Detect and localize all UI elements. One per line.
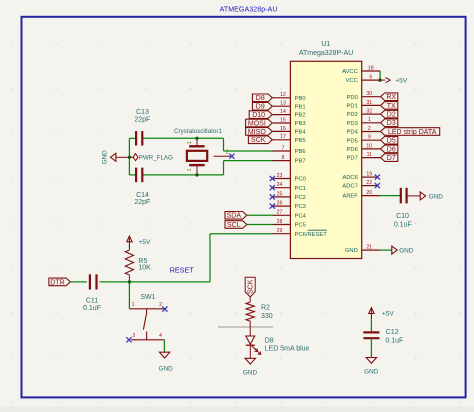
global label D6: [381, 145, 398, 153]
svg-text:SCK: SCK: [251, 137, 266, 144]
pin 32 PD2: [347, 109, 381, 119]
pin 28 PC5: [273, 219, 306, 229]
pin 9 PD5: [347, 135, 381, 145]
svg-text:D3: D3: [387, 120, 396, 127]
wire reset node up to pin 29: [210, 234, 273, 282]
svg-text:PB3: PB3: [295, 121, 306, 127]
wire ground rail left: [128, 138, 130, 175]
svg-text:+5V: +5V: [138, 239, 151, 246]
svg-text:16: 16: [280, 126, 286, 132]
global label D10: [249, 111, 272, 119]
svg-text:1: 1: [187, 141, 193, 144]
svg-text:MISO: MISO: [248, 129, 266, 136]
capacitor C13: [134, 109, 150, 145]
pin 2 PD4: [347, 126, 381, 136]
wire +5V to C12: [370, 320, 372, 333]
pin 21 GND: [345, 245, 380, 255]
svg-text:D8: D8: [256, 95, 265, 102]
svg-text:PD1: PD1: [347, 104, 358, 110]
pin 18 AVCC: [342, 65, 380, 75]
svg-text:1: 1: [187, 169, 193, 172]
svg-text:PB0: PB0: [295, 96, 306, 102]
pin 13 PB1: [273, 101, 306, 111]
pin 31 PD1: [347, 100, 381, 110]
wire C11 to reset node: [100, 281, 211, 283]
wire DTR to C11: [70, 281, 87, 283]
no-connect X: [375, 175, 380, 180]
wire XTAL top rail: [129, 138, 272, 151]
pin 7 PB6: [273, 145, 306, 155]
ground GND (left of rail): [101, 150, 129, 165]
svg-text:LED 5mA blue: LED 5mA blue: [265, 345, 310, 352]
pin 27 PC4: [273, 210, 307, 220]
junction crystal bottom: [195, 173, 198, 176]
svg-text:C14: C14: [136, 192, 149, 199]
svg-text:ATmega328P-AU: ATmega328P-AU: [299, 50, 353, 57]
svg-text:+5V: +5V: [395, 77, 408, 84]
global label SCK: [248, 136, 272, 144]
svg-text:ADC6: ADC6: [342, 175, 357, 181]
capacitor C12: [363, 329, 403, 344]
svg-text:GND: GND: [364, 368, 379, 375]
svg-text:C10: C10: [396, 213, 409, 220]
pin 29 PC6/RESET: [273, 228, 328, 238]
svg-text:GND: GND: [429, 194, 444, 201]
svg-text:12: 12: [280, 92, 286, 98]
power flag PWR_FLAG: [129, 154, 173, 162]
pin 24 PC1: [273, 182, 306, 192]
svg-text:D8: D8: [265, 337, 274, 344]
power +5V (right of VCC): [380, 77, 408, 84]
svg-text:21: 21: [366, 245, 372, 251]
svg-text:24: 24: [277, 182, 283, 188]
svg-text:PWR_FLAG: PWR_FLAG: [139, 155, 173, 162]
svg-text:PD0: PD0: [347, 95, 358, 101]
svg-text:PD7: PD7: [347, 156, 358, 162]
pin 22 ADC7: [342, 180, 377, 190]
pin 25 PC2: [273, 191, 306, 201]
svg-text:D2: D2: [387, 112, 396, 119]
capacitor C11: [83, 274, 101, 312]
ground GND (below LED): [243, 358, 258, 376]
global label MOSI: [246, 119, 273, 127]
svg-text:PB7: PB7: [295, 159, 306, 165]
pin 11 PD7: [347, 152, 381, 162]
svg-text:22pF: 22pF: [134, 116, 150, 123]
svg-text:PC2: PC2: [295, 195, 306, 201]
ground GND (below SW1): [159, 352, 174, 372]
svg-text:11: 11: [367, 152, 372, 158]
global label DTR: [49, 278, 70, 286]
svg-text:TX: TX: [387, 103, 396, 110]
svg-text:PD5: PD5: [347, 138, 358, 144]
svg-text:RX: RX: [386, 94, 396, 101]
ground GND (right of U1): [392, 246, 414, 255]
svg-text:ATMEGA328p-AU: ATMEGA328p-AU: [220, 7, 278, 14]
svg-text:GND: GND: [345, 248, 358, 254]
wire AVCC to VCC junction: [379, 71, 381, 80]
no-connect X: [270, 185, 275, 190]
svg-text:PD3: PD3: [347, 121, 358, 127]
svg-text:0.1uF: 0.1uF: [394, 221, 412, 228]
pin 10 PD6: [347, 143, 381, 153]
svg-text:D7: D7: [387, 155, 396, 162]
junction VCC node: [378, 78, 381, 81]
wire SW1 pin 4 to ground: [163, 340, 165, 352]
switch SW1: [129, 294, 164, 340]
svg-text:20: 20: [366, 190, 372, 196]
svg-text:25: 25: [277, 191, 283, 197]
svg-text:PB2: PB2: [295, 113, 306, 119]
pin 16 PB4: [273, 126, 307, 136]
wire GND pin to ground: [380, 249, 392, 251]
pin 17 PB5: [273, 134, 306, 144]
svg-text:PB4: PB4: [295, 130, 307, 136]
global label D5: [381, 136, 398, 144]
svg-text:D6: D6: [387, 146, 396, 153]
global label RX: [381, 93, 398, 101]
svg-text:SW1: SW1: [140, 294, 155, 301]
svg-text:PD6: PD6: [347, 147, 358, 153]
svg-text:AVCC: AVCC: [342, 69, 358, 75]
pin 6 VCC: [346, 75, 381, 85]
svg-text:13: 13: [280, 101, 286, 107]
svg-text:ADC7: ADC7: [342, 184, 357, 190]
global label TX: [381, 102, 398, 110]
svg-text:4: 4: [159, 333, 162, 339]
svg-text:2: 2: [159, 302, 162, 308]
wire reset node to SW1: [128, 282, 130, 309]
svg-text:PD4: PD4: [347, 130, 359, 136]
pin 8 PB7: [273, 155, 306, 165]
svg-text:PC4: PC4: [295, 213, 307, 219]
svg-text:R2: R2: [261, 304, 270, 311]
capacitor C14: [134, 168, 150, 207]
wire SCL to pin: [247, 224, 273, 226]
svg-text:D9: D9: [256, 104, 265, 111]
pin 1 PD3: [347, 117, 381, 127]
global label SCK (vertical): [245, 277, 255, 297]
svg-text:+5V: +5V: [382, 311, 395, 318]
pin 30 PD0: [347, 91, 381, 101]
svg-text:18: 18: [368, 65, 374, 71]
svg-text:PB6: PB6: [295, 149, 306, 155]
svg-text:DTR: DTR: [50, 279, 64, 286]
svg-text:PC1: PC1: [295, 186, 306, 192]
junction crystal top: [195, 137, 198, 140]
svg-text:VCC: VCC: [346, 78, 358, 84]
svg-text:SDA: SDA: [227, 213, 242, 220]
svg-text:1: 1: [132, 302, 135, 308]
svg-text:C12: C12: [386, 329, 399, 336]
svg-text:31: 31: [366, 100, 372, 106]
pin 12 PB0: [273, 92, 306, 102]
pin 19 ADC6: [342, 172, 377, 182]
LED D8: [246, 336, 310, 358]
svg-text:GND: GND: [243, 369, 258, 376]
wire AREF to C10: [380, 195, 401, 197]
svg-text:PC5: PC5: [295, 223, 306, 229]
svg-text:9: 9: [368, 135, 371, 141]
global label D9: [252, 102, 272, 110]
svg-text:U1: U1: [321, 41, 330, 48]
svg-text:0.1uF: 0.1uF: [385, 337, 403, 344]
pin 20 AREF: [342, 190, 380, 200]
no-connect X SW1 pin 3: [126, 337, 131, 342]
global label D8: [252, 94, 272, 102]
resistor R2: [246, 297, 273, 336]
gray separator line: [218, 326, 273, 328]
power +5V (above C12): [369, 308, 395, 320]
svg-text:3: 3: [132, 333, 135, 339]
no-connect X: [270, 194, 275, 199]
global label SCL: [225, 221, 247, 229]
svg-text:15: 15: [280, 117, 286, 123]
svg-text:GND: GND: [159, 365, 174, 372]
svg-text:14: 14: [280, 109, 286, 115]
no-connect X: [270, 176, 275, 181]
svg-text:2: 2: [368, 126, 371, 132]
svg-text:PC6/RESET: PC6/RESET: [295, 232, 328, 238]
no-connect X: [270, 204, 275, 209]
svg-text:28: 28: [277, 219, 283, 225]
global label D7: [381, 154, 398, 162]
svg-text:SCL: SCL: [227, 222, 241, 229]
pin 23 PC0: [273, 173, 306, 183]
global label MISO: [246, 128, 273, 136]
pin 14 PB2: [273, 109, 306, 119]
no-connect X: [375, 183, 380, 188]
junction reset node: [128, 280, 131, 283]
svg-text:6: 6: [369, 75, 372, 81]
svg-text:2: 2: [225, 149, 228, 155]
pin 26 PC3: [273, 201, 306, 211]
IC U1 ATmega328P-AU body: [290, 61, 361, 258]
svg-text:GND: GND: [399, 248, 414, 255]
svg-text:D5: D5: [387, 138, 396, 145]
wire SDA to pin: [247, 214, 273, 216]
wire C12 to ground: [370, 338, 372, 357]
svg-text:PC0: PC0: [295, 177, 306, 183]
no-connect X crystal pin 2: [229, 154, 234, 159]
svg-text:C13: C13: [136, 109, 149, 116]
svg-text:7: 7: [282, 145, 285, 151]
svg-text:D10: D10: [252, 112, 265, 119]
svg-text:GND: GND: [101, 150, 108, 165]
svg-text:10: 10: [366, 143, 372, 149]
svg-text:10K: 10K: [138, 265, 151, 272]
capacitor C10: [394, 188, 412, 229]
svg-text:29: 29: [277, 228, 283, 234]
global label SDA: [225, 212, 247, 220]
svg-text:8: 8: [282, 155, 285, 161]
svg-text:LED strip DATA: LED strip DATA: [388, 129, 437, 136]
svg-text:27: 27: [277, 210, 283, 216]
no-connect X SW1 pin 2: [162, 307, 167, 312]
power +5V (above R5): [127, 236, 151, 248]
svg-text:SCK: SCK: [248, 279, 255, 294]
svg-text:330: 330: [261, 313, 273, 320]
pin 15 PB3: [273, 117, 306, 127]
svg-text:32: 32: [366, 109, 372, 115]
wire XTAL bottom rail: [129, 161, 272, 175]
svg-text:Crystaloscillator1: Crystaloscillator1: [174, 128, 222, 135]
ground GND (below C12): [364, 358, 379, 376]
svg-text:30: 30: [366, 91, 372, 97]
svg-text:1: 1: [368, 117, 371, 123]
svg-text:PB5: PB5: [295, 138, 306, 144]
junction ground tap: [128, 156, 131, 159]
resistor R5: [125, 248, 151, 282]
global label D2: [381, 110, 398, 118]
svg-text:PB1: PB1: [295, 104, 306, 110]
svg-text:PD2: PD2: [347, 112, 358, 118]
svg-text:22: 22: [366, 180, 372, 186]
svg-text:26: 26: [277, 201, 283, 207]
svg-text:17: 17: [280, 134, 286, 140]
svg-text:22pF: 22pF: [134, 199, 150, 206]
ground GND (right of C10): [420, 192, 443, 201]
wire C10 to ground: [407, 195, 420, 197]
svg-text:MOSI: MOSI: [248, 120, 266, 127]
global label LED strip DATA: [381, 128, 440, 136]
svg-text:0.1uF: 0.1uF: [83, 305, 101, 312]
global label D3: [381, 119, 398, 127]
svg-text:C11: C11: [86, 297, 98, 304]
crystal Y1 Crystaloscillator1: [174, 128, 232, 175]
svg-text:23: 23: [277, 173, 283, 179]
svg-text:19: 19: [366, 172, 372, 178]
svg-text:PC3: PC3: [295, 204, 306, 210]
svg-text:AREF: AREF: [342, 194, 358, 200]
svg-text:RESET: RESET: [170, 265, 195, 274]
